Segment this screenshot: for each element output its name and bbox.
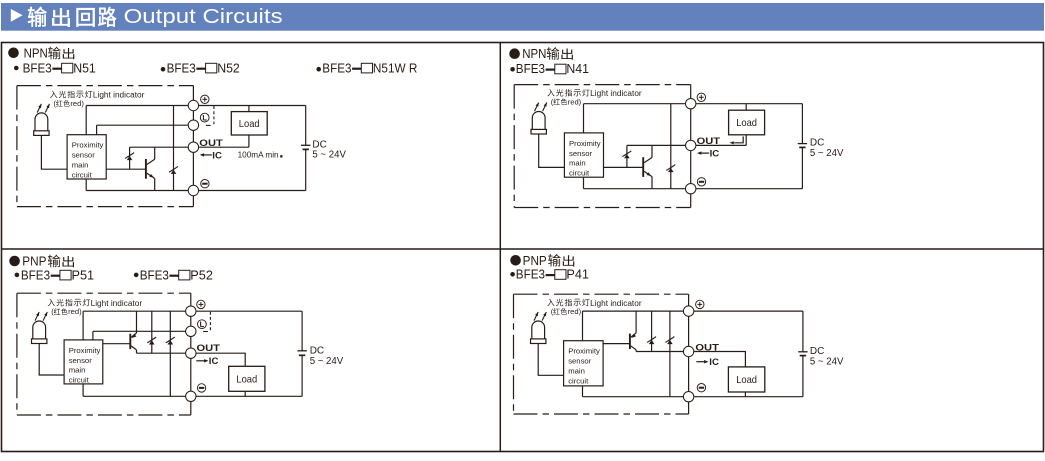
model label BFE3-[]N51WR text (322, 60, 417, 75)
svg-text:Light indicator: Light indicator (91, 299, 143, 308)
terminal minus Q4 (683, 392, 693, 402)
transistor (PNP output) Q4 (630, 311, 636, 351)
LED light indicator Q1 (34, 113, 49, 136)
table horizontal divider (2, 248, 1044, 250)
svg-text:P51: P51 (72, 267, 95, 282)
current return arrow at load Q2 (730, 136, 744, 144)
wire: supply + side Q2 (801, 104, 803, 144)
proximity sensor main circuit text Q4 (568, 347, 600, 386)
section header bullet Q1 (8, 48, 19, 59)
model label BFE3-[]P52 bullet (134, 273, 139, 278)
label: (red) Q2 (551, 97, 582, 106)
LED light rays Q4 (534, 312, 546, 321)
label: (red) Q3 (51, 307, 82, 316)
battery DC 5-24V Q4 (798, 352, 807, 356)
svg-text:IC: IC (710, 149, 720, 160)
load box Q1 (231, 112, 267, 135)
terminal OUT Q4 (683, 346, 693, 356)
terminal plus Q1 (188, 100, 198, 110)
svg-text:circuit: circuit (568, 376, 589, 385)
svg-text:(: ( (551, 307, 554, 316)
polarity symbol - Q2 (697, 178, 705, 186)
polarity symbol + Q3 (197, 300, 205, 308)
wire: OUT terminal to load Q4 (694, 352, 746, 367)
transistor (NPN output) Q1 (146, 147, 155, 190)
label: IC current arrow Q2 (697, 149, 719, 160)
terminal minus Q1 (188, 185, 198, 195)
wire: supply - side Q3 (301, 355, 303, 396)
svg-text:5 ~ 24V: 5 ~ 24V (810, 148, 844, 159)
wire: base drive from main circuit Q4 (603, 343, 630, 345)
svg-text:main: main (568, 367, 585, 376)
svg-text:BFE3: BFE3 (516, 267, 545, 282)
LED light indicator Q3 (32, 321, 47, 344)
svg-text:BFE3: BFE3 (516, 61, 545, 76)
svg-text:BFE3: BFE3 (140, 267, 169, 282)
svg-text:NPN: NPN (522, 47, 546, 61)
svg-text:red): red) (68, 307, 82, 316)
svg-text:Load: Load (736, 375, 757, 386)
zener D1 vertical (+V to OUT) Q4 (651, 311, 653, 351)
wire: LED cathode to main circuit Q2 (539, 134, 565, 167)
model label BFE3-[]N41 bullet (510, 67, 515, 72)
svg-text:Proximity: Proximity (72, 141, 104, 150)
wire: L (load) line Q3 (93, 330, 191, 332)
terminal OUT Q3 (186, 348, 196, 358)
zener diode D2 (supply clamp) Q4 (665, 337, 674, 345)
stub: main circuit to L line Q1 (96, 125, 98, 135)
battery DC 5-24V Q1 (301, 145, 310, 149)
transistor (PNP output) Q3 (130, 311, 136, 353)
wire: OUT terminal to load Q2 (696, 144, 746, 146)
stub: main circuit to +V rail Q3 (82, 311, 84, 340)
svg-text:circuit: circuit (69, 376, 90, 385)
svg-text:red): red) (568, 307, 582, 316)
proximity sensor main circuit box Q2 (564, 133, 603, 177)
zener D1 vertical (+V to OUT) Q3 (151, 311, 153, 353)
svg-text:BFE3: BFE3 (23, 60, 52, 75)
zener diode D2 (supply clamp) Q3 (166, 337, 175, 345)
wire: OUT line Q3 (137, 352, 191, 354)
stub: load to 0V wire Q4 (744, 392, 746, 397)
svg-text:main: main (569, 159, 586, 168)
model label BFE3-[]N51WR bullet (316, 67, 321, 72)
svg-text:Light indicator: Light indicator (590, 299, 642, 308)
zener diode D1 Q3 (147, 337, 156, 345)
svg-text:main: main (69, 366, 86, 375)
wire: L (load) line Q1 (97, 124, 194, 126)
section header text PNP-output Q4 (523, 254, 575, 268)
wire: LED cathode to main circuit Q4 (538, 344, 563, 376)
battery DC 5-24V Q2 (798, 144, 807, 148)
polarity symbol - Q1 (201, 180, 209, 188)
svg-text:Proximity: Proximity (69, 346, 101, 355)
svg-text:5 ~ 24V: 5 ~ 24V (310, 356, 344, 367)
stub: main circuit to +V rail Q2 (583, 104, 585, 133)
label: incident light indicator (CJK) Q1 (50, 91, 57, 98)
svg-text:(: ( (54, 99, 57, 108)
wire: OUT terminal to load Q1 (199, 146, 249, 148)
terminal minus Q3 (186, 391, 196, 401)
LED light rays Q2 (535, 103, 547, 112)
wire: 0V rail Q3 (83, 395, 302, 397)
LED light rays Q3 (35, 312, 47, 321)
section header bullet Q3 (9, 256, 20, 267)
svg-text:Proximity: Proximity (568, 347, 600, 356)
proximity sensor main circuit box Q1 (67, 135, 106, 179)
stub: main circuit to 0V rail Q1 (85, 179, 87, 191)
svg-text:red): red) (70, 99, 84, 108)
svg-text:Light indicator: Light indicator (590, 89, 642, 98)
wire: base drive from main circuit Q1 (106, 168, 146, 170)
load box Q4 (728, 367, 764, 392)
svg-text:circuit: circuit (569, 169, 590, 178)
terminal bus line Q3 (190, 293, 192, 415)
polarity symbol - Q4 (697, 384, 705, 392)
title arrow (11, 9, 23, 22)
svg-text:(: ( (551, 97, 554, 106)
title bar (1, 3, 1044, 31)
stub: +V rail to load Q2 (745, 104, 747, 111)
stub: main circuit to 0V rail Q3 (82, 384, 84, 396)
svg-text:Output Circuits: Output Circuits (124, 5, 283, 28)
zener diode D1 Q4 (647, 337, 656, 345)
zener D2 vertical (+V to 0V) Q3 (169, 311, 171, 396)
zener diode D1 Q1 (125, 153, 134, 161)
wire: OUT line Q2 (627, 144, 691, 146)
polarity symbol + Q4 (696, 300, 704, 308)
svg-text:sensor: sensor (568, 357, 592, 366)
svg-text:N41: N41 (566, 61, 589, 76)
svg-text:circuit: circuit (72, 170, 93, 179)
svg-text:DC: DC (810, 346, 824, 357)
stub: main circuit to +V rail Q1 (85, 106, 87, 135)
wire: +V rail Q2 (584, 103, 803, 105)
stub: load to OUT wire Q2 (745, 135, 747, 146)
wire: supply - side Q1 (305, 149, 307, 190)
polarity symbol - Q3 (197, 384, 205, 392)
terminal plus Q4 (683, 306, 693, 316)
model label BFE3-[]N41 text (516, 61, 589, 76)
LED light indicator Q4 (531, 321, 546, 344)
zener D2 vertical (+V to 0V) Q4 (669, 311, 671, 397)
svg-text:sensor: sensor (569, 149, 593, 158)
section header bullet Q4 (510, 255, 521, 266)
terminal L Q1 (188, 120, 198, 130)
label: IC current arrow Q1 (200, 150, 222, 161)
model label BFE3-[]N51 bullet (14, 66, 19, 71)
polarity symbol + Q2 (697, 93, 705, 101)
load box Q2 (729, 110, 765, 135)
model label BFE3-[]P51 bullet (15, 273, 20, 278)
proximity sensor main circuit text Q3 (69, 346, 101, 385)
terminal minus Q2 (686, 184, 696, 194)
svg-text:N52: N52 (217, 60, 240, 75)
svg-text:IC: IC (209, 356, 219, 367)
zener diode D1 Q2 (622, 151, 631, 159)
section header text NPN-output Q2 (522, 47, 573, 61)
title CJK: output circuit (28, 7, 116, 27)
wire: supply + side Q4 (802, 311, 804, 352)
stub: main circuit to +V rail Q4 (582, 311, 584, 341)
label: (red) Q4 (551, 307, 582, 316)
model label BFE3-[]N52 text (167, 60, 240, 75)
svg-text:IC: IC (709, 357, 719, 368)
wire: supply - side Q4 (802, 356, 804, 397)
wire: base drive from main circuit Q3 (103, 343, 131, 345)
model label BFE3-[]P41 bullet (510, 272, 515, 277)
terminal OUT Q2 (686, 140, 696, 150)
stub: load to 0V wire Q3 (244, 391, 246, 396)
label: IC current arrow Q4 (696, 357, 719, 368)
wire: OUT line Q1 (130, 146, 194, 148)
svg-text:(: ( (51, 307, 54, 316)
svg-text:BFE3: BFE3 (21, 267, 50, 282)
wire: +V rail Q3 (83, 310, 302, 312)
dash-dot optional-L mark Q1 (206, 106, 214, 125)
dash-dot optional-L mark Q3 (203, 312, 210, 332)
terminal plus Q2 (686, 99, 696, 109)
zener diode D2 (supply clamp) Q2 (666, 165, 675, 173)
sensor enclosure (dash-dot outline) Q2 (514, 85, 691, 208)
wire: +V rail Q4 (583, 310, 803, 312)
svg-text:sensor: sensor (69, 356, 93, 365)
terminal plus Q3 (186, 306, 196, 316)
svg-text:Load: Load (236, 374, 257, 385)
label: incident light indicator (CJK) Q2 (547, 89, 554, 96)
zener diode (base-out) vertical Q1 (129, 147, 131, 169)
wire: supply + side Q3 (301, 311, 303, 351)
wire: 0V rail Q4 (583, 396, 803, 398)
svg-text:Load: Load (239, 119, 260, 130)
model label BFE3-[]P51 text (21, 267, 94, 282)
polarity symbol + Q1 (201, 95, 209, 103)
svg-text:OUT: OUT (197, 343, 221, 354)
stub: main circuit to 0V rail Q2 (583, 177, 585, 189)
battery DC 5-24V Q3 (297, 351, 306, 356)
svg-text:Load: Load (736, 118, 757, 129)
label: (red) Q1 (54, 99, 85, 108)
LED light indicator Q2 (531, 112, 546, 135)
terminal symbol L (load wire) Q1 (200, 113, 209, 122)
section header text PNP-output Q3 (22, 255, 74, 269)
table vertical divider (499, 43, 501, 452)
svg-text:P52: P52 (190, 267, 213, 282)
model label BFE3-[]N52 bullet (161, 67, 166, 72)
terminal symbol L (load wire) Q3 (198, 320, 207, 329)
zener D2 vertical (+V to 0V) Q1 (173, 106, 175, 191)
svg-text:red): red) (568, 97, 582, 106)
terminal bus line Q4 (688, 294, 690, 414)
svg-text:DC: DC (310, 345, 324, 356)
wire: supply - side Q2 (801, 147, 803, 188)
section header bullet Q2 (509, 48, 520, 59)
terminal bus line Q2 (690, 85, 692, 208)
wire: OUT line Q4 (636, 351, 689, 353)
stub: main circuit to 0V rail Q4 (582, 386, 584, 397)
svg-text:Proximity: Proximity (569, 139, 601, 148)
svg-text:IC: IC (212, 150, 222, 161)
svg-text:5 ~ 24V: 5 ~ 24V (312, 150, 346, 161)
sensor enclosure (dash-dot outline) Q4 (514, 294, 689, 414)
svg-text:N51W R: N51W R (373, 60, 418, 75)
label: 100mA min. Q1 (238, 149, 283, 159)
terminal bus line Q1 (192, 86, 194, 207)
svg-text:N51: N51 (73, 60, 96, 75)
proximity sensor main circuit box Q3 (64, 340, 103, 384)
svg-text:NPN: NPN (24, 47, 48, 61)
wire: OUT terminal to load Q3 (196, 353, 245, 366)
model label BFE3-[]N51 text (23, 60, 96, 75)
wire: 0V rail Q2 (584, 188, 803, 190)
svg-text:BFE3: BFE3 (167, 60, 196, 75)
svg-text:Light indicator: Light indicator (93, 91, 145, 100)
svg-text:5 ~ 24V: 5 ~ 24V (810, 357, 844, 368)
load box Q3 (229, 366, 265, 391)
label: incident light indicator (CJK) Q3 (48, 299, 55, 306)
proximity sensor main circuit text Q1 (72, 141, 104, 180)
stub: main circuit to L line Q3 (92, 331, 94, 340)
wire: LED cathode to main circuit Q1 (41, 135, 67, 169)
proximity sensor main circuit box Q4 (564, 341, 604, 386)
svg-text:100mA min: 100mA min (238, 149, 279, 159)
wire: LED cathode to main circuit Q3 (39, 344, 64, 376)
section header text NPN-output Q1 (24, 47, 75, 61)
model label BFE3-[]P41 text (516, 267, 589, 282)
terminal OUT Q1 (188, 142, 198, 152)
wire: supply + side Q1 (305, 106, 307, 146)
proximity sensor main circuit text Q2 (569, 139, 601, 178)
svg-text:P41: P41 (566, 267, 589, 282)
transistor (NPN output) Q2 (643, 145, 652, 188)
LED light rays Q1 (37, 104, 49, 113)
wire: +V rail Q1 (86, 105, 306, 107)
label: IC current arrow Q3 (196, 356, 218, 367)
sensor enclosure (dash-dot outline) Q3 (17, 293, 191, 415)
sensor enclosure (dash-dot outline) Q1 (17, 86, 194, 207)
zener diode (base-out) vertical Q2 (626, 145, 628, 167)
label: incident light indicator (CJK) Q4 (547, 299, 554, 306)
terminal L Q3 (186, 326, 196, 336)
wire: 0V rail Q1 (86, 190, 306, 192)
stub: +V rail to load Q1 (248, 106, 250, 112)
zener diode D2 (supply clamp) Q1 (169, 166, 178, 174)
model label BFE3-[]P52 text (140, 267, 213, 282)
wire: base drive from main circuit Q2 (604, 166, 644, 168)
svg-text:main: main (72, 161, 89, 170)
svg-text:BFE3: BFE3 (322, 60, 351, 75)
svg-text:sensor: sensor (72, 151, 96, 160)
stub: load to OUT wire Q1 (248, 135, 250, 147)
zener D2 vertical (+V to 0V) Q2 (670, 104, 672, 189)
